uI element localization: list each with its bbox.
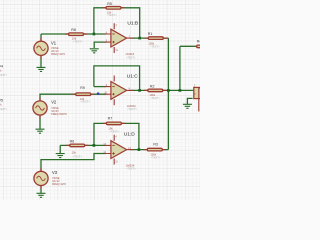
ground under V1 bbox=[37, 67, 46, 71]
svg-text:V1: V1 bbox=[51, 41, 57, 46]
grid minor bbox=[0, 0, 200, 200]
wire R4 row bbox=[180, 45, 197, 47]
wire R5 feedback loop bbox=[94, 8, 140, 38]
svg-text:<TEXT>: <TEXT> bbox=[110, 130, 120, 134]
red pin stubs R2 bbox=[144, 89, 166, 91]
red pin stubs R9 bbox=[72, 93, 94, 95]
resistor R3 bbox=[147, 142, 162, 159]
red pin stubs V2 bbox=[39, 98, 41, 119]
svg-text:<TEXT>: <TEXT> bbox=[126, 55, 136, 59]
ground under V3 bbox=[37, 193, 46, 197]
svg-text:<TEXT>: <TEXT> bbox=[150, 45, 160, 49]
source V2 bbox=[33, 100, 68, 116]
ground under U1:B plus bbox=[90, 49, 99, 53]
svg-text:R7: R7 bbox=[108, 116, 113, 120]
svg-text:U1:C: U1:C bbox=[127, 74, 138, 80]
svg-text:V3: V3 bbox=[52, 170, 58, 175]
resistor R1 bbox=[148, 32, 164, 49]
red pin stubs R8 bbox=[65, 33, 87, 35]
wire pot to ground bbox=[187, 98, 192, 104]
op-amp U1:B bbox=[105, 20, 138, 59]
svg-text:<TEXT>: <TEXT> bbox=[73, 39, 83, 43]
svg-text:<TEXT>: <TEXT> bbox=[0, 73, 8, 77]
svg-text:V2: V2 bbox=[51, 100, 57, 105]
svg-text:R3: R3 bbox=[153, 142, 158, 146]
wire bus1 vertical bbox=[167, 38, 169, 150]
junction U1:D output/R7 bbox=[138, 148, 141, 151]
wire U1:B output row bbox=[130, 37, 169, 39]
red pin stub R4 bbox=[196, 45, 197, 47]
wire V3 to ground bbox=[40, 186, 42, 193]
blue probe dot bbox=[97, 93, 99, 95]
svg-text:R6: R6 bbox=[70, 140, 75, 144]
svg-text:<TEXT>: <TEXT> bbox=[151, 156, 161, 160]
junction R8/R5/minus node bbox=[93, 33, 96, 36]
resistor R6 bbox=[70, 140, 85, 159]
red pin stubs R6 bbox=[66, 144, 88, 146]
svg-text:R8: R8 bbox=[71, 28, 76, 32]
resistor R7 bbox=[106, 116, 121, 133]
red pin stubs R3 bbox=[144, 149, 166, 151]
wire U1:C minus lead bbox=[94, 86, 106, 88]
wire V2 riser and plus row bbox=[40, 94, 106, 101]
red pin stubs R1 bbox=[145, 37, 167, 39]
svg-text:<TEXT>: <TEXT> bbox=[107, 13, 117, 17]
wire bus2 vertical bbox=[179, 46, 181, 90]
ground under V2 bbox=[36, 129, 45, 133]
potentiometer RV1 (clipped at right edge) bbox=[193, 85, 202, 111]
junction bus2/row90 bbox=[179, 89, 182, 92]
ground left of R6 bbox=[56, 154, 65, 158]
grid major bbox=[0, 0, 200, 200]
junction R6/R7/minus node bbox=[93, 144, 96, 147]
svg-text:U1:B: U1:B bbox=[127, 20, 138, 26]
red pin stubs R5 bbox=[102, 7, 124, 9]
wire V1 riser bbox=[40, 34, 42, 41]
red pin stubs V1 bbox=[40, 38, 42, 59]
svg-text:FREQ=1kHz: FREQ=1kHz bbox=[52, 183, 67, 186]
junction bus1/row90 bbox=[167, 89, 170, 92]
svg-text:FREQ=1kHz: FREQ=1kHz bbox=[51, 53, 66, 56]
svg-text:V5: V5 bbox=[0, 99, 3, 103]
svg-text:R5: R5 bbox=[107, 2, 112, 6]
junction U1:B output/R5 bbox=[138, 37, 141, 40]
resistor R5 bbox=[106, 2, 121, 17]
resistor R4 (clipped at right edge) bbox=[197, 40, 209, 48]
wire V1 to ground bbox=[40, 56, 42, 67]
wire U1:B plus to ground bbox=[94, 42, 106, 48]
resistor R8 bbox=[69, 28, 84, 43]
ground near pot bbox=[183, 104, 192, 108]
svg-text:<TEXT>: <TEXT> bbox=[127, 107, 137, 111]
red pin stubs R7 bbox=[103, 122, 125, 124]
resistor R2 bbox=[148, 85, 163, 100]
svg-text:R9: R9 bbox=[80, 86, 85, 90]
svg-text:V4: V4 bbox=[0, 65, 3, 69]
wire U1:D minus row bbox=[60, 144, 106, 146]
wire R7 feedback loop bbox=[94, 123, 139, 149]
label V5 (clipped at left edge) bbox=[0, 99, 8, 111]
resistor R9 bbox=[76, 86, 91, 103]
svg-text:R1: R1 bbox=[148, 32, 153, 36]
wire R3 output row bbox=[130, 149, 169, 151]
svg-text:10k: 10k bbox=[72, 151, 77, 155]
source V1 bbox=[34, 41, 66, 57]
svg-text:R2: R2 bbox=[150, 85, 155, 89]
svg-text:<TEXT>: <TEXT> bbox=[126, 166, 136, 170]
svg-text:FREQ=500Hz: FREQ=500Hz bbox=[51, 113, 67, 116]
wire V3 riser and plus row bbox=[41, 154, 106, 172]
svg-text:<TEXT>: <TEXT> bbox=[150, 96, 160, 100]
wire U1:B minus input row bbox=[41, 33, 106, 35]
wire U1:C output row bbox=[130, 89, 193, 91]
source V3 bbox=[34, 170, 67, 186]
red pin stubs V3 bbox=[40, 168, 42, 189]
op-amp U1:C bbox=[104, 74, 138, 111]
wire U1:C feedback loop bbox=[94, 66, 140, 91]
op-amp U1:D bbox=[103, 132, 136, 171]
wire ground drop left of R6 bbox=[59, 145, 61, 153]
svg-text:R4: R4 bbox=[197, 40, 200, 44]
svg-text:<TEXT>: <TEXT> bbox=[72, 155, 82, 159]
svg-text:U1:D: U1:D bbox=[124, 132, 135, 138]
svg-text:<TEXT>: <TEXT> bbox=[80, 99, 90, 103]
wire V2 to ground bbox=[39, 116, 41, 129]
junction U1:C output/feedback bbox=[138, 89, 141, 92]
svg-text:<TEXT>: <TEXT> bbox=[0, 107, 8, 111]
label V4 (clipped at left edge) bbox=[0, 65, 8, 77]
